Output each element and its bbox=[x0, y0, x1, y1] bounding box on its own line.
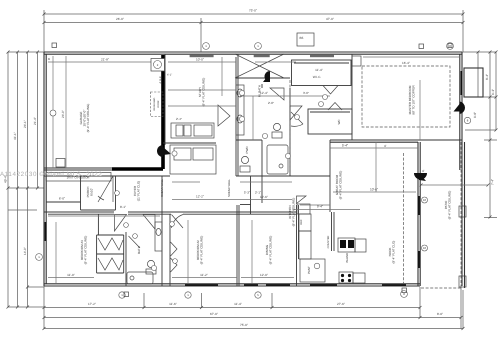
svg-text:3'-0": 3'-0" bbox=[303, 91, 309, 95]
svg-text:PWD: PWD bbox=[245, 146, 249, 154]
svg-text:(9'-4" FLAT CEILING): (9'-4" FLAT CEILING) bbox=[291, 198, 295, 227]
svg-text:COUNTER: COUNTER bbox=[327, 235, 330, 248]
svg-text:21'-4": 21'-4" bbox=[33, 117, 37, 125]
svg-text:PANT: PANT bbox=[307, 266, 311, 274]
svg-text:2'-8": 2'-8" bbox=[268, 101, 274, 105]
svg-text:41'-1": 41'-1" bbox=[13, 132, 17, 140]
svg-text:24'-0": 24'-0" bbox=[61, 110, 65, 118]
svg-text:4': 4' bbox=[422, 169, 425, 173]
svg-text:24'-1": 24'-1" bbox=[23, 120, 27, 128]
svg-text:(9'-4" FLAT CEILING): (9'-4" FLAT CEILING) bbox=[268, 236, 272, 265]
svg-text:B5: B5 bbox=[300, 36, 304, 40]
svg-text:26'-0": 26'-0" bbox=[116, 17, 124, 21]
svg-text:12'-6": 12'-6" bbox=[260, 195, 268, 199]
svg-text:WC: WC bbox=[337, 119, 341, 125]
svg-text:(9'-4" FLAT CEILING): (9'-4" FLAT CEILING) bbox=[447, 191, 451, 220]
svg-text:11'-6": 11'-6" bbox=[169, 302, 177, 306]
svg-text:4'-1": 4'-1" bbox=[167, 74, 172, 77]
svg-text:A11422030 ©Miami MLS, 2022: A11422030 ©Miami MLS, 2022 bbox=[0, 171, 102, 178]
svg-text:16'-4": 16'-4" bbox=[402, 61, 410, 65]
svg-text:2'-4": 2'-4" bbox=[176, 117, 182, 121]
svg-text:RECESSED: RECESSED bbox=[153, 97, 156, 110]
svg-text:99" TO 107" COFFER: 99" TO 107" COFFER bbox=[411, 84, 415, 114]
svg-text:47'-0": 47'-0" bbox=[326, 17, 334, 21]
svg-text:W.I.C.: W.I.C. bbox=[313, 75, 322, 79]
svg-text:10'-0": 10'-0" bbox=[196, 58, 204, 62]
svg-text:12'-0": 12'-0" bbox=[260, 273, 268, 277]
svg-text:(11' FLAT CLG): (11' FLAT CLG) bbox=[136, 181, 140, 202]
svg-text:21'-8": 21'-8" bbox=[101, 58, 109, 62]
svg-text:SHEAR WALL: SHEAR WALL bbox=[227, 179, 231, 197]
svg-text:(9'-4" FLAT CEILING): (9'-4" FLAT CEILING) bbox=[86, 104, 90, 133]
svg-text:5'-4": 5'-4" bbox=[342, 144, 348, 148]
svg-text:8'-1": 8'-1" bbox=[120, 205, 126, 209]
svg-text:3'-1": 3'-1" bbox=[255, 191, 261, 195]
svg-text:14'-0": 14'-0" bbox=[23, 247, 27, 255]
svg-text:DOOR: DOOR bbox=[157, 100, 160, 107]
svg-text:4': 4' bbox=[384, 144, 387, 148]
svg-text:11'-0": 11'-0" bbox=[67, 273, 75, 277]
svg-text:6'-8": 6'-8" bbox=[473, 112, 477, 118]
svg-text:6'-0": 6'-0" bbox=[59, 197, 65, 201]
svg-text:REF: REF bbox=[300, 219, 303, 225]
svg-text:8'-4": 8'-4" bbox=[485, 74, 489, 80]
svg-text:BATH: BATH bbox=[137, 246, 141, 254]
svg-text:8'x10': 8'x10' bbox=[89, 188, 93, 196]
svg-text:10: 10 bbox=[423, 246, 427, 250]
svg-text:6'-3": 6'-3" bbox=[491, 89, 495, 95]
svg-text:10: 10 bbox=[423, 198, 427, 202]
svg-text:5'-3": 5'-3" bbox=[244, 191, 250, 195]
svg-text:(9'-4" FLAT CEILING): (9'-4" FLAT CEILING) bbox=[83, 236, 87, 265]
svg-text:27'-6": 27'-6" bbox=[337, 302, 345, 306]
svg-text:M. BATH: M. BATH bbox=[258, 85, 262, 97]
svg-text:75'-0": 75'-0" bbox=[240, 323, 248, 327]
svg-text:11'-2": 11'-2" bbox=[200, 273, 208, 277]
svg-text:SHEAR WALL: SHEAR WALL bbox=[160, 179, 164, 197]
svg-text:8'-0": 8'-0" bbox=[437, 312, 443, 316]
svg-text:ISLAND: ISLAND bbox=[345, 253, 349, 263]
svg-text:67'-0": 67'-0" bbox=[210, 312, 218, 316]
svg-text:7'-4": 7'-4" bbox=[491, 179, 495, 185]
svg-text:4' CLR: 4' CLR bbox=[159, 76, 162, 83]
svg-text:11'-4": 11'-4" bbox=[234, 302, 242, 306]
svg-text:(9'-4" FLAT CEILING): (9'-4" FLAT CEILING) bbox=[338, 171, 342, 200]
svg-text:B: B bbox=[48, 57, 50, 61]
svg-text:17'-2": 17'-2" bbox=[88, 302, 96, 306]
svg-text:10'-6": 10'-6" bbox=[370, 188, 378, 192]
svg-text:75'-0": 75'-0" bbox=[249, 9, 257, 13]
svg-text:11'-4": 11'-4" bbox=[315, 68, 323, 72]
svg-text:(9'-4" FLAT CEILING): (9'-4" FLAT CEILING) bbox=[199, 236, 203, 265]
svg-text:9'-4": 9'-4" bbox=[317, 205, 323, 209]
svg-text:12'-2": 12'-2" bbox=[196, 195, 204, 199]
svg-text:(9'-4" FLAT CLG): (9'-4" FLAT CLG) bbox=[391, 241, 395, 264]
svg-text:(9'-4" FLAT CEILING): (9'-4" FLAT CEILING) bbox=[201, 78, 205, 107]
